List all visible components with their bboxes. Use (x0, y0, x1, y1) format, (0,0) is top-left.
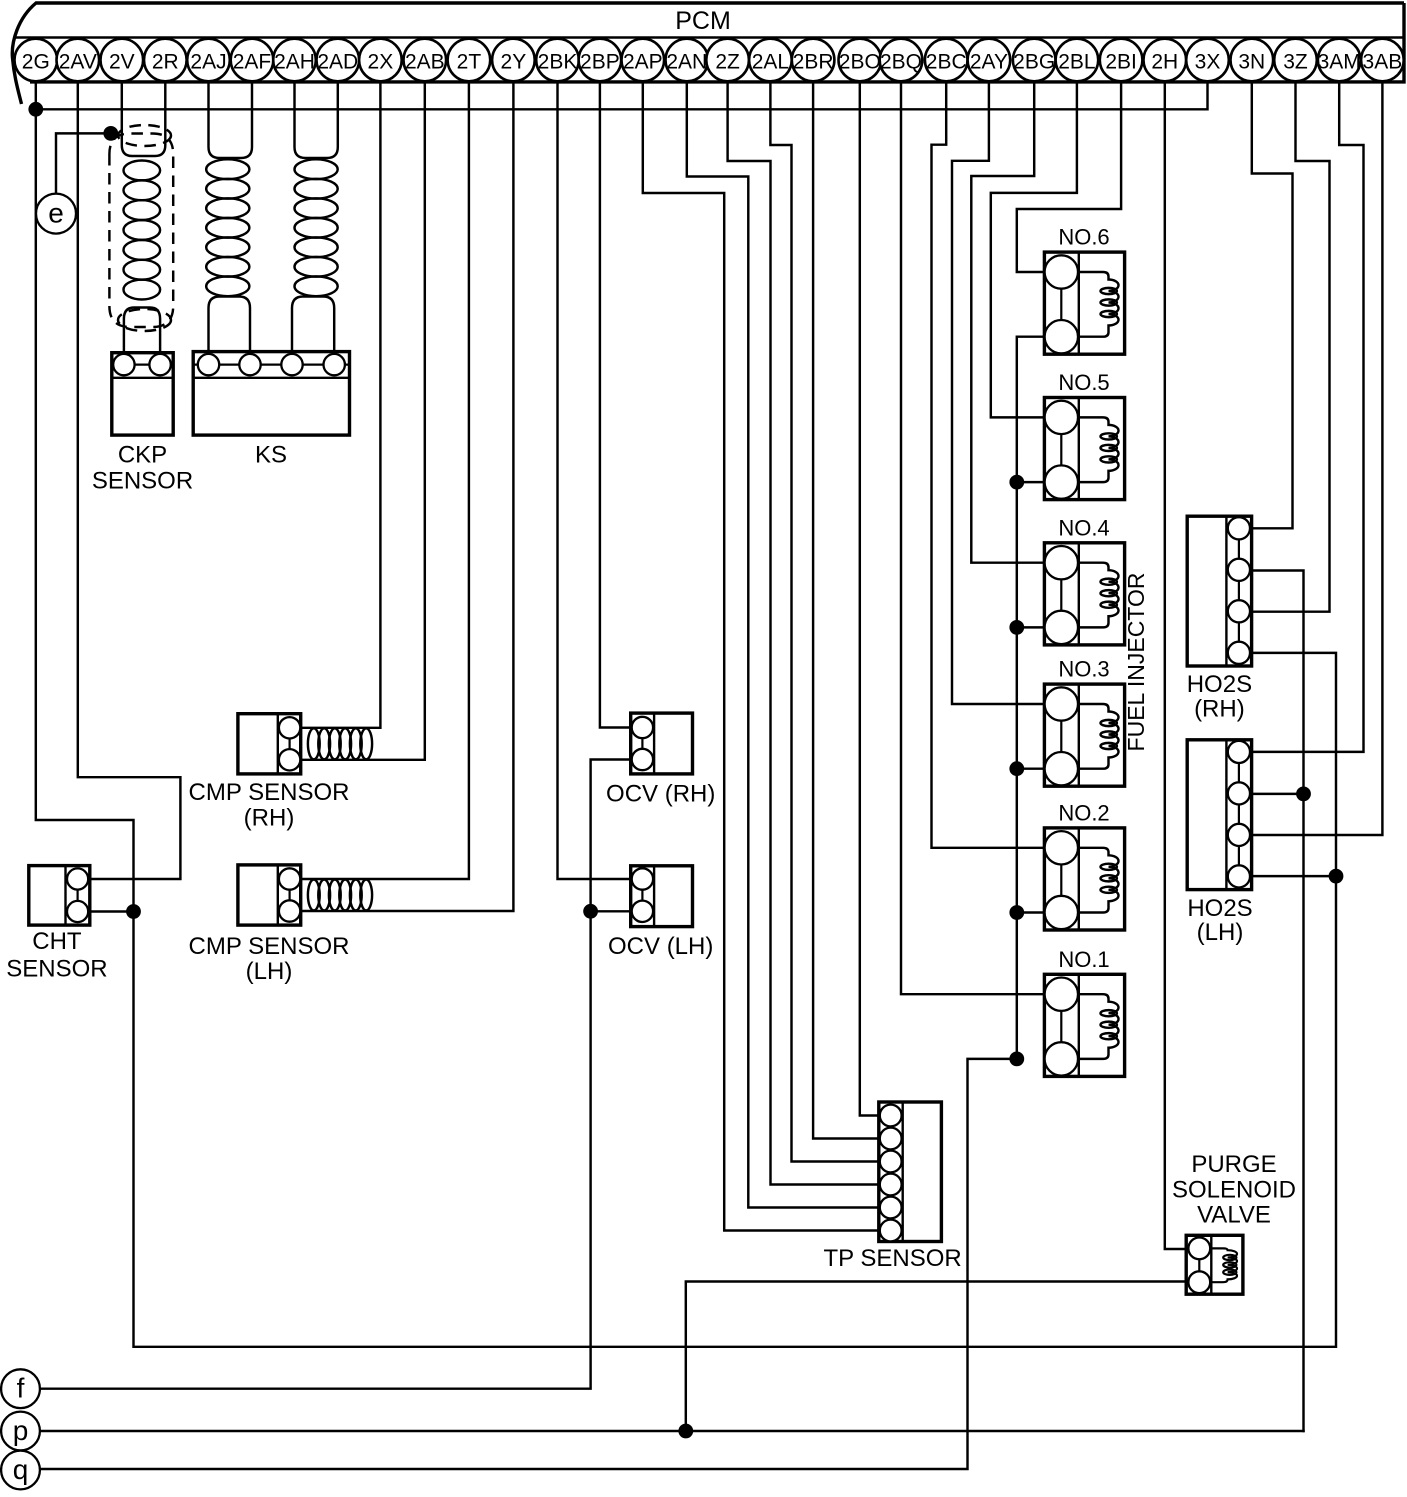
svg-text:HO2S: HO2S (1187, 895, 1252, 922)
svg-text:3AM: 3AM (1318, 51, 1361, 74)
svg-text:(RH): (RH) (1194, 696, 1245, 723)
svg-text:CMP SENSOR: CMP SENSOR (189, 933, 350, 960)
svg-text:e: e (48, 198, 64, 229)
svg-text:PURGE: PURGE (1191, 1151, 1276, 1178)
svg-text:SOLENOID: SOLENOID (1172, 1177, 1296, 1204)
svg-text:2AB: 2AB (405, 51, 445, 74)
svg-text:2AN: 2AN (666, 51, 707, 74)
svg-text:2X: 2X (368, 51, 394, 74)
svg-text:CMP SENSOR: CMP SENSOR (189, 779, 350, 806)
svg-text:2BQ: 2BQ (880, 51, 922, 74)
svg-text:2BL: 2BL (1058, 51, 1095, 74)
svg-text:2AL: 2AL (752, 51, 789, 74)
svg-text:NO.3: NO.3 (1058, 657, 1109, 682)
svg-text:2Z: 2Z (715, 51, 740, 74)
svg-text:2AY: 2AY (970, 51, 1008, 74)
svg-text:CHT: CHT (32, 928, 82, 955)
svg-text:PCM: PCM (675, 7, 731, 35)
svg-text:2AF: 2AF (233, 51, 272, 74)
svg-text:2R: 2R (152, 51, 179, 74)
svg-text:2BP: 2BP (580, 51, 620, 74)
svg-text:2BK: 2BK (538, 51, 578, 74)
svg-text:TP SENSOR: TP SENSOR (823, 1245, 961, 1272)
svg-text:p: p (13, 1415, 29, 1446)
svg-text:VALVE: VALVE (1197, 1202, 1271, 1229)
svg-text:2BG: 2BG (1013, 51, 1055, 74)
svg-text:2AD: 2AD (317, 51, 358, 74)
svg-text:3N: 3N (1238, 51, 1265, 74)
svg-text:(LH): (LH) (246, 958, 293, 985)
svg-text:2AP: 2AP (623, 51, 663, 74)
svg-text:2T: 2T (457, 51, 482, 74)
svg-text:HO2S: HO2S (1187, 671, 1252, 698)
svg-text:OCV (RH): OCV (RH) (606, 781, 715, 808)
svg-text:2H: 2H (1151, 51, 1178, 74)
svg-text:2BR: 2BR (793, 51, 834, 74)
svg-text:NO.4: NO.4 (1058, 515, 1109, 540)
svg-text:(RH): (RH) (244, 805, 295, 832)
svg-text:2AJ: 2AJ (190, 51, 226, 74)
svg-text:OCV (LH): OCV (LH) (608, 933, 713, 960)
svg-text:f: f (17, 1373, 25, 1404)
svg-text:FUEL INJECTOR: FUEL INJECTOR (1123, 573, 1149, 752)
svg-text:2V: 2V (109, 51, 135, 74)
svg-text:NO.1: NO.1 (1058, 947, 1109, 972)
svg-text:3AB: 3AB (1363, 51, 1403, 74)
svg-text:2BO: 2BO (839, 51, 881, 74)
svg-text:2BI: 2BI (1105, 51, 1137, 74)
svg-text:2G: 2G (22, 51, 50, 74)
svg-text:3X: 3X (1195, 51, 1221, 74)
svg-text:2AH: 2AH (274, 51, 315, 74)
svg-text:q: q (13, 1454, 29, 1485)
svg-text:KS: KS (255, 442, 287, 469)
svg-text:(LH): (LH) (1197, 919, 1244, 946)
svg-text:CKP: CKP (118, 442, 167, 469)
svg-text:2Y: 2Y (501, 51, 527, 74)
svg-text:3Z: 3Z (1283, 51, 1308, 74)
svg-text:SENSOR: SENSOR (92, 468, 193, 495)
svg-text:SENSOR: SENSOR (6, 956, 107, 983)
svg-text:NO.2: NO.2 (1058, 800, 1109, 825)
svg-text:2BC: 2BC (926, 51, 967, 74)
svg-text:NO.5: NO.5 (1058, 370, 1109, 395)
svg-text:2AV: 2AV (59, 51, 97, 74)
svg-text:NO.6: NO.6 (1058, 225, 1109, 250)
